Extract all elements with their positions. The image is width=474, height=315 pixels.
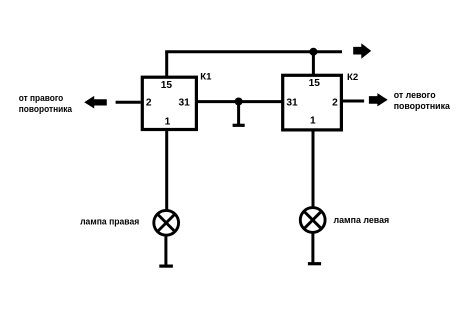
wire: K1 pin15 vertical drop — [165, 52, 168, 77]
arrow: left output (от правого поворотника) — [84, 96, 107, 109]
svg-text:К2: К2 — [347, 72, 358, 83]
svg-text:2: 2 — [146, 97, 152, 108]
wire: K2 pin2 to right arrow — [341, 100, 364, 103]
svg-text:15: 15 — [161, 80, 173, 91]
svg-text:2: 2 — [332, 97, 338, 108]
arrow: top output (to flasher supply) — [353, 43, 371, 59]
relay K2 box — [283, 75, 342, 130]
ground: below right lamp — [308, 232, 321, 264]
svg-text:1: 1 — [310, 116, 316, 127]
svg-text:поворотника: поворотника — [394, 101, 451, 111]
wire: K1 pin31 to K2 pin31 — [196, 100, 283, 103]
relay K1 box — [142, 77, 196, 129]
svg-text:К1: К1 — [200, 72, 212, 83]
svg-text:лампа правая: лампа правая — [80, 217, 139, 227]
wire: K1 pin2 to left arrow — [116, 101, 141, 104]
ground: below left lamp — [159, 235, 173, 266]
svg-text:лампа левая: лампа левая — [334, 215, 390, 225]
svg-text:15: 15 — [309, 78, 321, 89]
node: top bus junction dot — [309, 48, 317, 56]
wire: K2 pin15 vertical drop — [312, 52, 315, 76]
lamp: right (лампа левая) — [300, 208, 325, 233]
node: mid junction dot — [235, 98, 243, 106]
wire: top bus horizontal — [165, 50, 342, 53]
lamp: left (лампа правая) — [154, 210, 179, 235]
svg-text:1: 1 — [165, 116, 171, 127]
wire: K1 pin1 down to left lamp — [165, 130, 168, 212]
svg-text:от левого: от левого — [394, 90, 436, 100]
arrow: right output (от левого поворотника) — [369, 93, 388, 106]
svg-text:31: 31 — [286, 97, 298, 108]
svg-text:от правого: от правого — [19, 93, 64, 103]
wire: K2 pin1 down to right lamp — [312, 130, 315, 209]
ground: mid (below junction) — [233, 101, 245, 126]
svg-text:поворотника: поворотника — [19, 104, 73, 114]
svg-text:31: 31 — [179, 98, 191, 109]
